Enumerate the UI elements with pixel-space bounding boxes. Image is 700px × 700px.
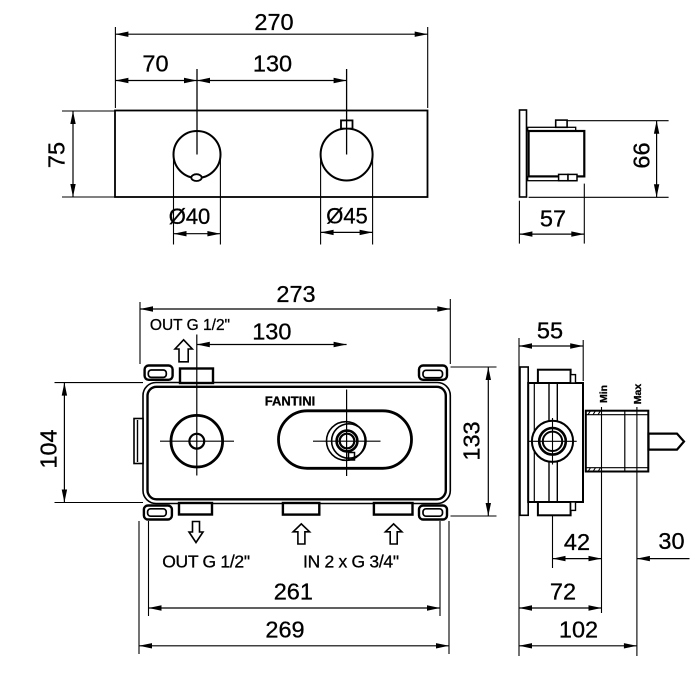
Max reference line [636,407,638,656]
svg-text:Ø45: Ø45 [326,204,368,229]
bottom port right [374,503,413,515]
svg-text:130: 130 [252,319,291,345]
dim 270 line [115,33,427,35]
dim 269 extension lines [138,521,140,654]
top outlet arrow [175,340,192,362]
rough-in side wall plate [520,367,528,515]
right knob circle (D45) [321,129,373,181]
mounting ear bottom-right [419,506,447,520]
ear slot bottom-right [423,509,443,516]
side view top flange [528,127,576,131]
side top tab step [571,375,576,383]
dim 72 line [519,607,602,609]
rough-in side body [528,383,583,502]
dim 130 top line [197,80,347,82]
mounting ear bottom-left [144,506,172,520]
dim 273 line [140,308,450,310]
bottom outlet arrow (down) [189,522,203,543]
cartridge inner circle [340,434,355,449]
svg-text:Max: Max [632,384,644,405]
dim 104 extension lines [55,382,144,384]
svg-text:75: 75 [44,142,70,168]
left side port [134,419,143,464]
left valve circle [171,415,223,467]
top outlet port [180,369,213,384]
dim 75 extension lines [62,110,115,112]
dim 42 line [553,558,602,560]
side view bottom flange [528,176,576,180]
dim D45 extension lines [320,155,322,245]
trim plate front view outline [115,111,428,198]
svg-text:OUT G 1/2": OUT G 1/2" [162,552,250,572]
dim 104 line [63,383,65,503]
dim 130 bottom line [197,344,347,346]
cartridge bottom notch [349,453,355,461]
dim 66 line [656,121,658,198]
side top tab [538,370,571,383]
mounting ear top-right [419,366,447,380]
side knob outer circle [532,421,573,462]
inlet arrow right (up) [385,524,402,544]
dim 55 line [519,345,583,347]
Min reference line [601,407,603,613]
dim D40 line [174,233,221,235]
svg-text:270: 270 [254,9,293,35]
cartridge centerline horizontal [313,440,381,442]
valve stem [649,434,685,450]
dim 102 line [519,645,637,647]
side view body [529,131,585,176]
svg-text:Ø40: Ø40 [169,204,211,229]
svg-text:42: 42 [564,529,590,555]
bottom port left [179,503,212,515]
side view stop detail right [568,174,577,180]
dim 70 line [115,80,197,82]
left knob centerline [196,69,198,155]
cartridge thread ticks [588,411,591,415]
dim 133 line [487,367,489,516]
right knob top button [341,120,353,128]
side view stop detail left [559,174,568,180]
side knob inner circle [543,432,562,451]
dim 270 extension lines [114,27,116,108]
left valve centerline vertical [196,335,198,476]
dim 261 line [149,607,441,609]
left knob lever detail [191,174,201,181]
ear slot top-right [423,370,443,377]
cartridge bold circle [337,431,358,452]
svg-text:55: 55 [537,318,563,344]
svg-text:133: 133 [459,421,485,460]
dim 57 extension lines [518,201,520,244]
dim 30 line [637,558,690,560]
inlet arrow middle (up) [293,524,310,544]
thermostatic cartridge stadium outline [279,411,412,469]
side knob middle circle [539,428,566,455]
mounting ear top-left [145,366,173,380]
svg-text:IN 2 x G 3/4": IN 2 x G 3/4" [303,552,399,572]
ear slot bottom-left [148,509,167,516]
cartridge centerline vertical [346,390,348,477]
dim 273 extension lines [139,302,141,364]
cartridge outer circle [327,422,366,461]
svg-text:104: 104 [36,429,62,468]
bottom port middle [283,503,319,515]
side centerline below body [552,515,554,568]
svg-text:102: 102 [559,617,598,643]
svg-text:FANTINI: FANTINI [265,393,316,408]
dim 269 line [139,645,449,647]
side bottom tab [538,502,571,515]
svg-text:Min: Min [598,385,610,403]
dim 57 line [519,233,584,235]
svg-text:261: 261 [274,579,313,605]
side strap lines [548,383,550,422]
dim D45 line [321,231,373,233]
rough-in inner body outline [148,387,446,500]
right knob centerline [346,69,348,155]
left valve inner circle [189,434,204,449]
svg-text:269: 269 [265,617,304,643]
side knob crosshair [528,440,577,442]
svg-text:72: 72 [550,579,576,605]
cartridge body side [586,411,649,472]
side view top button [556,120,567,127]
svg-text:70: 70 [142,51,168,77]
svg-text:57: 57 [540,206,566,232]
dim D40 extension lines [173,155,175,245]
svg-text:OUT G 1/2": OUT G 1/2" [150,317,230,334]
dim 55 extension right [582,340,584,381]
dim 133 extension lines [451,366,497,368]
side view left extension line [518,338,520,656]
side view wall plate [520,110,527,197]
svg-text:273: 273 [276,281,315,307]
ear slot top-left [148,370,166,377]
svg-text:130: 130 [253,51,292,77]
svg-text:30: 30 [658,528,684,554]
left knob circle (D40) [174,131,221,178]
dim 66 extension lines [567,120,669,122]
svg-text:66: 66 [629,142,655,168]
cartridge eccentric circle [332,424,366,458]
side bottom tab step [571,502,576,510]
rough-in outer plate outline [143,383,450,504]
left valve centerline horizontal [160,440,234,442]
side body inner line [533,383,535,502]
dim 261 extension lines [148,521,150,616]
dim 75 line [72,111,74,197]
cartridge thread end line [624,411,626,472]
